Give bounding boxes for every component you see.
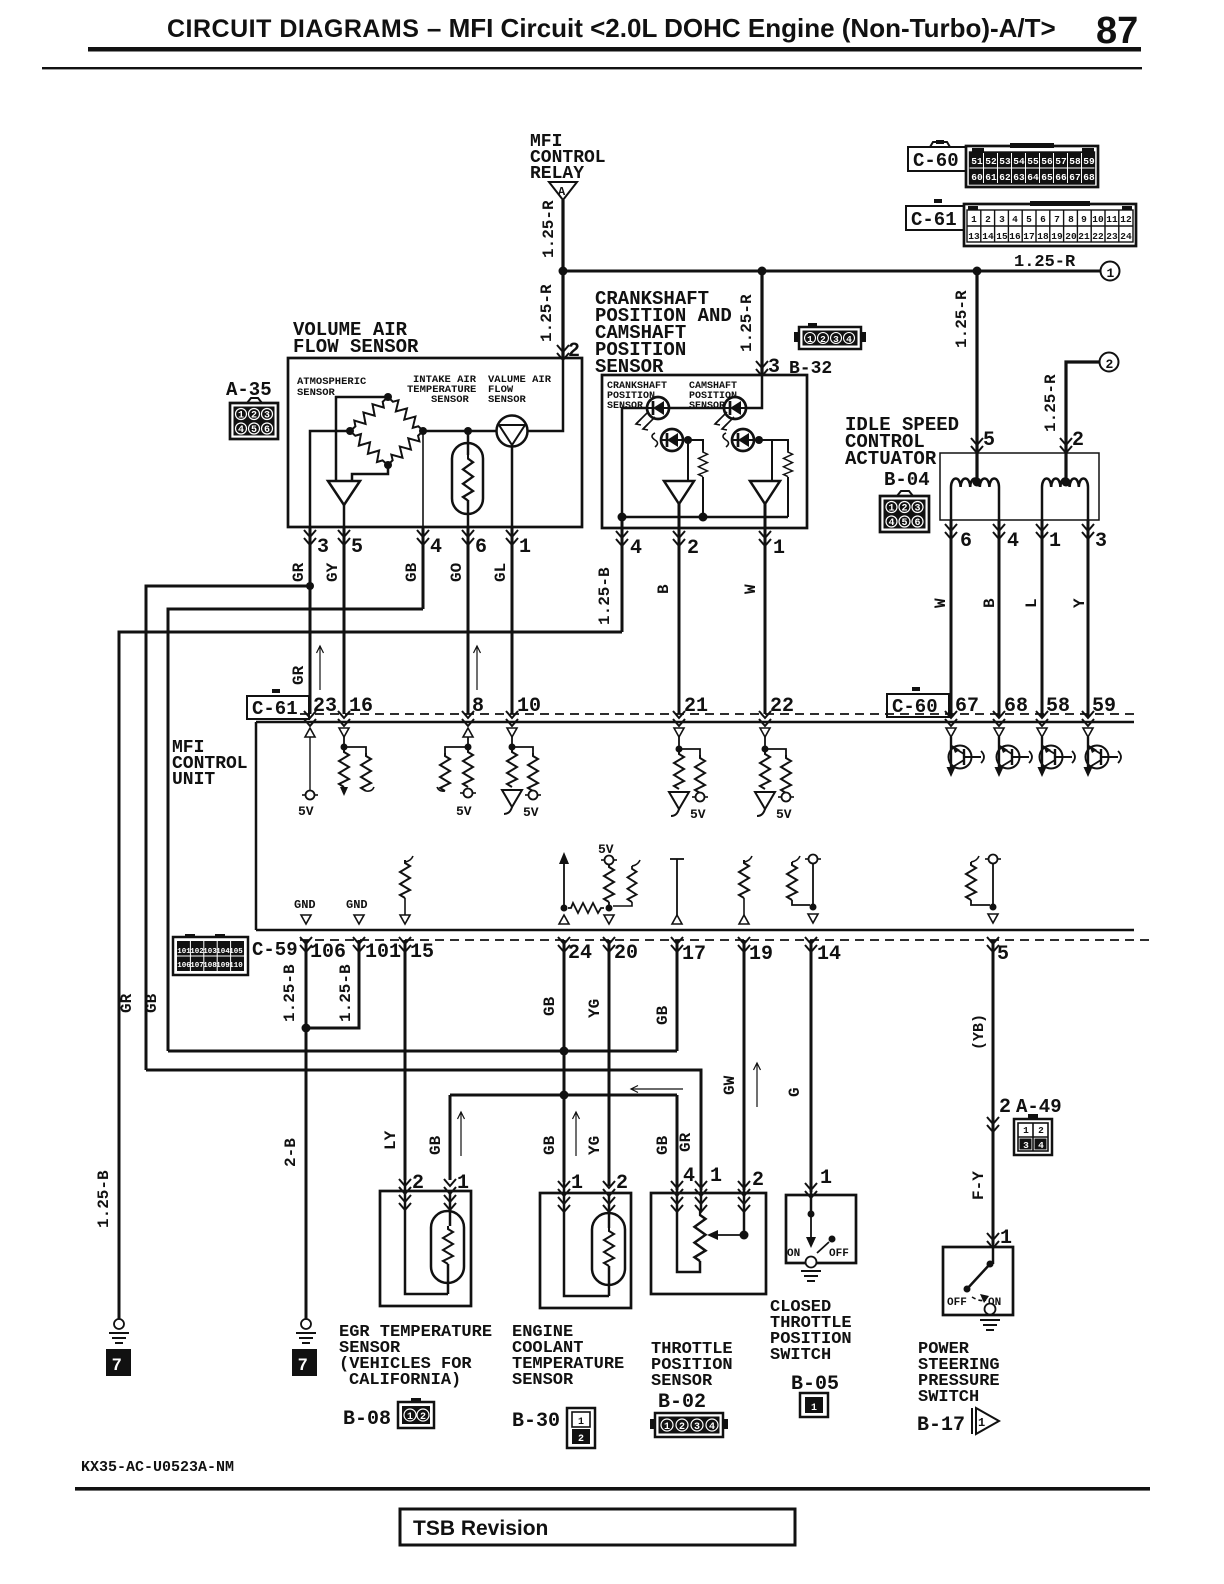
svg-text:17: 17 [1023, 231, 1035, 242]
main bus wire 1.25-R [563, 270, 1101, 273]
svg-text:24: 24 [568, 942, 592, 965]
node pin22 [762, 746, 769, 753]
connector B-04 pin grid [880, 491, 929, 532]
svg-text:W: W [742, 584, 760, 594]
wire from connector 2 to ISC coil pin 2 [1066, 362, 1099, 480]
resistor pin16 a [339, 749, 349, 787]
pin 106 marker [300, 937, 312, 952]
svg-text:16: 16 [1009, 231, 1021, 242]
svg-text:21: 21 [684, 695, 708, 718]
svg-text:59: 59 [1092, 695, 1116, 718]
svg-text:1.25-B: 1.25-B [596, 567, 614, 625]
photodiode curl cam [723, 433, 729, 447]
svg-text:1: 1 [1107, 266, 1115, 281]
resistor pin21 right [679, 749, 700, 755]
svg-text:1: 1 [571, 1172, 583, 1195]
node GB lower junction [560, 1091, 569, 1100]
svg-text:1.25-R: 1.25-R [1042, 374, 1060, 432]
resistor pin8 main [463, 749, 473, 787]
light rays crank [636, 412, 655, 430]
svg-text:2: 2 [999, 1096, 1011, 1119]
svg-text:23: 23 [1106, 231, 1118, 242]
pin marker 1 CTP switch [805, 1183, 817, 1198]
svg-text:12: 12 [1120, 214, 1132, 225]
bridge resistor top-left [347, 393, 392, 435]
connector C-60 label box [908, 142, 972, 171]
resistor pin16 b [344, 747, 366, 753]
svg-text:1: 1 [820, 1167, 832, 1190]
connector B-17 symbol [972, 1408, 999, 1434]
intake air temp sensor capsule [452, 443, 483, 514]
svg-text:5V: 5V [523, 805, 539, 820]
svg-text:GO: GO [448, 562, 466, 582]
svg-text:5: 5 [997, 943, 1009, 966]
5V source pin 14 [805, 855, 821, 864]
wire GR branch to left bus [146, 586, 310, 1070]
TSB revision box [400, 1509, 795, 1545]
resistor pin10 main [507, 749, 517, 787]
svg-text:3: 3 [1095, 530, 1107, 553]
node bridge bottom [384, 461, 392, 469]
resistor pin8 left [445, 747, 468, 753]
GB bus horizontal [168, 1050, 677, 1053]
5V source pin10 right [525, 791, 541, 800]
wire throttle pin2 lead [743, 1190, 746, 1235]
svg-text:2: 2 [985, 214, 991, 225]
svg-text:55: 55 [1027, 156, 1039, 167]
pin marker 4 ISC [993, 524, 1005, 539]
pin marker 2 A-49 [987, 1117, 999, 1132]
svg-text:G: G [786, 1087, 804, 1097]
svg-text:103: 103 [203, 948, 217, 956]
svg-text:SENSOR: SENSOR [651, 1372, 713, 1391]
pin 24 sense line with up arrow [563, 858, 565, 908]
svg-text:CIRCUIT DIAGRAMS – MFI Circuit: CIRCUIT DIAGRAMS – MFI Circuit <2.0L DOH… [167, 13, 1056, 43]
signal arrow up at EGR pin1 [458, 1112, 465, 1156]
pin marker 2 crank box [673, 531, 685, 546]
VAFS box [288, 358, 582, 527]
connector B-32 pin grid [794, 323, 866, 349]
svg-text:1: 1 [1023, 1125, 1029, 1136]
wire crank node to amp [687, 440, 689, 481]
pin 67 marker [945, 711, 957, 726]
5V source pin22 right [778, 793, 794, 802]
pin 24 marker [558, 937, 570, 952]
relay terminal A triangle [549, 182, 577, 200]
svg-text:GB: GB [654, 1135, 672, 1155]
wire B-32 pin3 into box to cam LED [746, 375, 762, 408]
svg-text:GB: GB [427, 1135, 445, 1155]
svg-text:SENSOR: SENSOR [488, 394, 527, 406]
svg-text:1.25-B: 1.25-B [95, 1170, 113, 1228]
pin 16 marker [338, 711, 350, 726]
wire bridge left to pin 3 [310, 431, 350, 527]
MFI control unit box bottom edge [256, 929, 1134, 932]
svg-text:2: 2 [1038, 1125, 1044, 1136]
wire pin24 down [563, 940, 566, 1095]
svg-text:C-61: C-61 [252, 698, 298, 720]
wire pin14 5V to node [812, 863, 814, 907]
wire joined gnd down [305, 1028, 308, 1319]
engine coolant temperature sensor box [540, 1193, 631, 1308]
node coil2 center [1062, 478, 1071, 487]
pin marker 2 throttle [738, 1181, 750, 1196]
ISC coil 1 [951, 479, 999, 488]
svg-text:5: 5 [351, 536, 363, 559]
svg-text:GB: GB [403, 562, 421, 582]
svg-text:58: 58 [1069, 156, 1081, 167]
pin 15 marker [399, 937, 411, 952]
svg-text:1.25-B: 1.25-B [281, 964, 299, 1022]
svg-text:2: 2 [687, 537, 699, 560]
svg-text:B-17: B-17 [917, 1414, 965, 1437]
svg-text:4: 4 [430, 536, 442, 559]
svg-text:SENSOR: SENSOR [607, 401, 643, 412]
pin marker 2 on ISC [1060, 438, 1072, 453]
svg-text:A-35: A-35 [226, 379, 272, 401]
wire bus down to VAFS pin 2 [561, 271, 564, 358]
transistor Q pin58 [1037, 728, 1075, 777]
connector C-60 label box at ECU [887, 694, 949, 717]
node cam photo out [755, 436, 763, 444]
header thick rule [88, 47, 1141, 52]
pin marker 5 [338, 530, 350, 545]
svg-text:GB: GB [541, 996, 559, 1016]
svg-text:1: 1 [457, 1172, 469, 1195]
off-page connector 1 [1101, 262, 1120, 281]
svg-text:2: 2 [1106, 357, 1114, 372]
svg-text:B: B [981, 598, 999, 608]
wire amp out to pin 5 [343, 505, 346, 527]
5V source pin21 right [692, 793, 708, 802]
5V source pin23 [302, 791, 318, 800]
svg-text:64: 64 [1027, 172, 1039, 183]
signal arrow left on GB branch [631, 1086, 683, 1093]
wire GB junction to coolant pin1 [563, 1095, 566, 1182]
svg-text:3: 3 [317, 536, 329, 559]
svg-text:GR: GR [118, 993, 136, 1013]
svg-text:10: 10 [1092, 214, 1104, 225]
svg-text:1: 1 [578, 1417, 584, 1428]
svg-text:8: 8 [1068, 214, 1074, 225]
svg-text:58: 58 [1046, 695, 1070, 718]
svg-text:1.25-R: 1.25-R [953, 290, 971, 348]
svg-text:105: 105 [229, 948, 243, 956]
switch common circle CTP [806, 1257, 817, 1268]
svg-text:2: 2 [752, 1169, 764, 1192]
power steering pressure switch box [943, 1247, 1013, 1315]
svg-text:107: 107 [190, 962, 204, 970]
wire pin5 5V to node [992, 863, 994, 907]
pin 58 marker [1036, 711, 1048, 726]
node PS common [987, 1261, 994, 1268]
node pin24 on GB bus [560, 1047, 569, 1056]
svg-text:GW: GW [721, 1075, 739, 1095]
resistor pin 15 [405, 856, 413, 862]
pin marker 1 ISC [1036, 524, 1048, 539]
wire GB branch to left bus [168, 609, 423, 1051]
wire bus down to crank sensor [760, 271, 763, 375]
svg-text:21: 21 [1078, 231, 1090, 242]
wire crank node to resistor [684, 440, 703, 450]
ground bus inside sensor box [622, 516, 788, 519]
photodiode crankshaft [661, 429, 683, 451]
pin 68 marker [993, 711, 1005, 726]
ground PS [980, 1320, 1000, 1330]
svg-text:5: 5 [983, 429, 995, 452]
node coil1 center [973, 478, 982, 487]
svg-text:59: 59 [1083, 156, 1095, 167]
off-page connector 2 [1100, 353, 1119, 372]
wire crank LED to left rail [622, 408, 647, 517]
comparator input pin21 [669, 792, 689, 816]
svg-text:20: 20 [1065, 231, 1077, 242]
resistor pin14 [792, 856, 800, 862]
pin 19 marker [738, 937, 750, 952]
svg-text:C-59: C-59 [252, 939, 298, 961]
svg-text:68: 68 [1004, 695, 1028, 718]
svg-text:17: 17 [682, 943, 706, 966]
potentiometer resistor throttle [700, 1190, 703, 1211]
connector B-02 pin grid [650, 1413, 728, 1437]
signal arrow up at coolant pin1 [573, 1112, 580, 1156]
svg-text:67: 67 [955, 695, 979, 718]
connector C-60 pin grid 51-68 [966, 143, 1098, 187]
svg-text:23: 23 [313, 695, 337, 718]
svg-text:SENSOR: SENSOR [431, 394, 470, 406]
pin marker 6 ISC [945, 524, 957, 539]
svg-text:19: 19 [749, 943, 773, 966]
svg-text:1.25-B: 1.25-B [337, 964, 355, 1022]
svg-text:1: 1 [773, 537, 785, 560]
connector C-59 pin grid [173, 934, 248, 975]
GB branch bus lower [450, 1094, 677, 1097]
wire label LY context: pin2 lead inside [404, 1180, 407, 1288]
coolant pin1 lead [563, 1182, 566, 1290]
svg-text:B-04: B-04 [884, 469, 930, 491]
pin 21 input triangle [674, 728, 684, 737]
svg-text:(YB): (YB) [971, 1014, 988, 1050]
5V source pin8 [460, 789, 476, 798]
coolant thermistor capsule [592, 1213, 625, 1285]
svg-text:6: 6 [1040, 214, 1046, 225]
svg-text:54: 54 [1013, 156, 1025, 167]
svg-text:4: 4 [683, 1165, 695, 1188]
wire bridge top to amp input [336, 397, 388, 481]
pin 22 input triangle [760, 728, 770, 737]
pin 14 marker [805, 937, 817, 952]
transistor Q pin59 [1083, 728, 1121, 777]
photodiode camshaft [732, 429, 754, 451]
svg-text:14: 14 [817, 943, 841, 966]
pin 23 input triangle [305, 728, 315, 737]
svg-text:5V: 5V [298, 804, 314, 819]
svg-text:106: 106 [177, 962, 191, 970]
wire pin8 to node [467, 737, 469, 749]
resistor pin21 main [674, 751, 684, 789]
node junction crank wire [758, 267, 767, 276]
wire pin2 entry to flow meter [527, 358, 563, 431]
pin 20 marker [603, 937, 615, 952]
svg-text:3: 3 [1023, 1140, 1029, 1151]
svg-text:13: 13 [968, 231, 980, 242]
light rays cam [715, 412, 734, 430]
svg-text:63: 63 [1013, 172, 1025, 183]
pin marker 3 ISC [1082, 524, 1094, 539]
svg-text:4: 4 [1012, 214, 1018, 225]
wire cam node to amp [771, 440, 773, 481]
connector B-08 pin grid [398, 1398, 434, 1428]
pin marker 1 throttle [695, 1181, 707, 1196]
svg-text:6: 6 [960, 530, 972, 553]
node pin8 [465, 744, 472, 751]
svg-text:C-60: C-60 [913, 150, 959, 172]
wire pin10 to node [511, 737, 513, 749]
MFI control unit box top edge [256, 721, 1134, 724]
wire throttle pin4 to resistor bottom [677, 1190, 700, 1272]
wire EGR pin1 to capsule [449, 1190, 452, 1226]
signal arrow up beside GO [474, 646, 481, 690]
pin 101 marker [353, 937, 365, 952]
svg-text:2: 2 [1072, 429, 1084, 452]
node pin24 [561, 905, 568, 912]
wire bridge right node to flow meter [423, 430, 497, 433]
svg-text:8: 8 [472, 695, 484, 718]
wire cam amp out to pin 1 [764, 504, 767, 528]
op-amp camshaft [750, 481, 780, 504]
5V source pin 5 [985, 855, 1001, 864]
wire bridge right node down to pin 4 [422, 431, 424, 527]
EGR temperature sensor box [380, 1191, 471, 1306]
node gnd join [302, 1024, 311, 1033]
switch lever CTP [829, 1236, 836, 1243]
svg-text:19: 19 [1051, 231, 1063, 242]
svg-text:110: 110 [229, 962, 243, 970]
svg-text:87: 87 [1096, 10, 1138, 52]
wire pin16 to node [343, 737, 345, 749]
pin marker 2 on VAFS [557, 345, 569, 360]
wire coolant pin2 to capsule [608, 1192, 611, 1228]
svg-text:W: W [932, 598, 950, 608]
header thin rule [42, 67, 1142, 69]
pin marker 1 power steering [987, 1233, 999, 1248]
node pin14 [810, 904, 817, 911]
svg-text:5V: 5V [690, 807, 706, 822]
throttle position sensor box [651, 1193, 766, 1294]
5V source pin20 [601, 856, 617, 865]
pin marker 4 throttle [671, 1181, 683, 1196]
svg-text:1.25-R: 1.25-R [738, 294, 756, 352]
svg-text:11: 11 [1106, 214, 1118, 225]
wire coil2 right to pin 3 [1087, 487, 1090, 520]
wire into CTP switch [810, 1192, 813, 1214]
svg-text:OFF: OFF [829, 1248, 849, 1260]
wire pin15 to EGR [404, 940, 407, 1180]
node bridge right [419, 427, 427, 435]
svg-text:GR: GR [290, 665, 308, 685]
pin marker 4 [417, 530, 429, 545]
resistor pin20 to 5V [604, 864, 614, 902]
ground ref box 7 right [292, 1349, 317, 1376]
resistor crank pull [699, 450, 708, 477]
svg-text:1: 1 [519, 536, 531, 559]
node bridge top [384, 393, 392, 401]
svg-text:SWITCH: SWITCH [770, 1346, 831, 1365]
svg-text:106: 106 [310, 941, 346, 964]
wire coil1 right to pin 4 [998, 487, 1001, 520]
svg-text:10: 10 [517, 695, 541, 718]
resistor pin20 right spare [632, 860, 640, 866]
svg-text:65: 65 [1041, 172, 1053, 183]
svg-text:22: 22 [1092, 231, 1104, 242]
wire cam resistor to bus [787, 477, 789, 517]
svg-text:18: 18 [1037, 231, 1049, 242]
flow meter circle with triangle [497, 416, 528, 447]
svg-text:1: 1 [978, 1416, 985, 1430]
wire pin20 to coolant sensor [608, 940, 611, 1186]
resistor coolant thermistor [604, 1228, 614, 1266]
svg-text:109: 109 [216, 962, 230, 970]
svg-text:15: 15 [410, 941, 434, 964]
svg-text:B: B [655, 584, 673, 594]
svg-text:1.25-R: 1.25-R [538, 284, 556, 342]
resistor cam pull [784, 450, 793, 477]
wire capsule to pin 6 [467, 500, 470, 527]
svg-text:2: 2 [568, 340, 580, 363]
pin 21 marker [673, 711, 685, 726]
resistor pin22 main [760, 751, 770, 789]
svg-text:GB: GB [541, 1135, 559, 1155]
wire pin21 to node [678, 737, 680, 751]
connector A-35 pin grid [230, 398, 278, 439]
pin 5 marker [987, 937, 999, 952]
pin marker 1 [506, 530, 518, 545]
svg-text:15: 15 [996, 231, 1008, 242]
node pin5 [990, 904, 997, 911]
pin 10 marker [506, 711, 518, 726]
svg-text:GND: GND [346, 898, 368, 912]
ground far left shield [114, 1319, 124, 1329]
resistor intake air temp [463, 455, 473, 501]
svg-text:TSB Revision: TSB Revision [413, 1517, 548, 1540]
svg-text:101: 101 [177, 948, 191, 956]
svg-text:101: 101 [365, 941, 401, 964]
svg-text:YG: YG [586, 1136, 604, 1155]
connector B-30 pin grid [567, 1408, 595, 1448]
svg-text:CALIFORNIA): CALIFORNIA) [349, 1371, 461, 1390]
bridge resistor bottom-right [384, 427, 426, 468]
svg-text:2: 2 [578, 1434, 584, 1445]
svg-text:2: 2 [412, 1172, 424, 1195]
lever throw dashes PS [972, 1297, 986, 1301]
node junction ISC wire [973, 267, 982, 276]
svg-text:F-Y: F-Y [970, 1171, 988, 1200]
pin marker 3 B-32 [756, 361, 768, 376]
svg-text:7: 7 [1054, 214, 1060, 225]
node GR branch [306, 582, 314, 590]
resistor horizontal pin24-pin20 [568, 903, 604, 913]
photodiode curl crank [652, 433, 658, 447]
transistor Q pin67 [946, 728, 984, 777]
wire cam node to resistor [755, 440, 788, 450]
wire bridge bottom to amp input [352, 465, 388, 481]
svg-text:9: 9 [1081, 214, 1087, 225]
bridge resistor bottom-left [347, 427, 392, 469]
switch contact circle PS [985, 1304, 996, 1315]
pin 10 input triangle [507, 728, 517, 737]
svg-text:1: 1 [811, 1403, 817, 1414]
wire cam LED to crank LED [669, 407, 724, 410]
